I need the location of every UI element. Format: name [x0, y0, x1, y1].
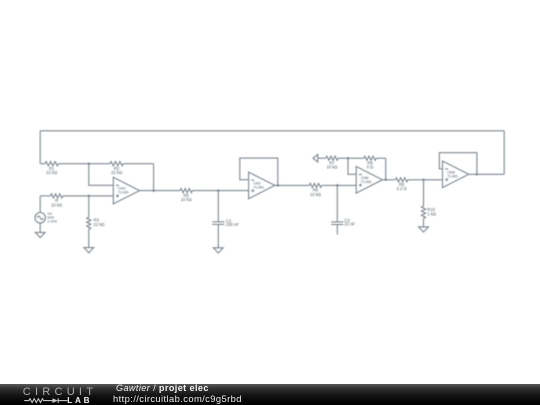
wire R1 lead left [40, 163, 45, 165]
ground V0 [35, 232, 45, 237]
wire top feedback bus [40, 130, 504, 132]
wire node to R2 [89, 163, 110, 165]
capacitor C3 [331, 221, 343, 223]
op-amp OA2 [249, 172, 275, 199]
ground C2 [213, 248, 223, 253]
wire output up to bus [503, 131, 505, 175]
resistor R8 [364, 156, 376, 160]
wire node to + input [89, 195, 114, 197]
op-amp OA8 [443, 161, 469, 188]
wire R2 to corner [123, 163, 153, 165]
wire node to OA8 + [424, 179, 443, 181]
resistor R5 [180, 189, 192, 193]
wire R5 to node [192, 190, 218, 192]
source V0 [35, 213, 46, 224]
resistor R6 [309, 183, 322, 187]
svg-text:10 kΩ: 10 kΩ [181, 197, 192, 202]
ground R3 [84, 248, 94, 253]
wire OA8 feedback box [439, 153, 477, 175]
node R9/R10 junction [422, 179, 425, 182]
wire node to R8 [348, 157, 364, 159]
svg-text:10 kΩ: 10 kΩ [326, 165, 337, 170]
logo diode [52, 398, 58, 403]
wire C3 stub [336, 225, 338, 235]
wire R10 bottom [423, 218, 425, 227]
wire OA6 inverting to feedback row [348, 158, 356, 174]
wire C3 top [336, 185, 338, 222]
svg-text:TL081: TL081 [118, 190, 129, 195]
node OA8 output junction [476, 173, 479, 176]
wire inverting input drop [89, 164, 114, 186]
svg-text:22 kΩ: 22 kΩ [51, 202, 62, 207]
node OA2 output junction [277, 184, 280, 187]
svg-text:100 nF: 100 nF [226, 222, 239, 227]
wire R3 top [88, 196, 90, 217]
wire R1 to node [58, 163, 88, 165]
wire R3 bottom [88, 229, 90, 248]
svg-text:0 Ω: 0 Ω [367, 165, 374, 170]
wire OA2 output [275, 184, 309, 186]
attribution line 1 [116, 384, 209, 393]
svg-text:10 kΩ: 10 kΩ [310, 192, 321, 197]
svg-text:22 nF: 22 nF [344, 222, 355, 227]
op-amp OA6 [356, 167, 382, 194]
svg-text:TL081: TL081 [361, 179, 372, 184]
resistor R7 [326, 156, 338, 160]
CircuitLab logo text LAB [67, 397, 92, 405]
wire V0 to ground [39, 223, 41, 232]
wire input lead [40, 195, 50, 197]
node R2/output junction [152, 189, 155, 192]
svg-text:2.2 Ω: 2.2 Ω [397, 186, 407, 191]
wire left drop to R1 [39, 131, 41, 164]
resistor R3 [87, 217, 91, 229]
capacitor C2 [212, 221, 224, 223]
footer bar [0, 384, 540, 405]
op-amp OA4 [113, 177, 139, 204]
svg-text:TL081: TL081 [253, 184, 264, 189]
wire R10 top [423, 180, 425, 206]
wire OA2 feedback box [240, 158, 278, 185]
wire R7 to node [338, 157, 348, 159]
wire OA8 output [469, 173, 505, 175]
wire C2 top [217, 191, 219, 222]
wire OA4 output [140, 190, 181, 192]
node R1/R2/feedback junction [88, 162, 91, 165]
wire node to OA2 + [218, 190, 248, 192]
resistor R9 [395, 178, 408, 182]
svg-text:22 kΩ: 22 kΩ [94, 222, 105, 227]
wire R8 to corner [376, 157, 386, 159]
svg-text:22 kΩ: 22 kΩ [111, 170, 122, 175]
wire flag to R7 [318, 157, 326, 159]
svg-text:1 kΩ: 1 kΩ [427, 211, 436, 216]
node R7/R8 junction [347, 157, 350, 160]
resistor R2 [110, 162, 123, 166]
attribution line 2 [113, 394, 242, 403]
wire source up [39, 196, 41, 213]
svg-text:1 kHz: 1 kHz [47, 219, 57, 223]
logo resistor squiggle [24, 399, 52, 403]
resistor R1 [45, 162, 58, 166]
wire R to node [63, 195, 89, 197]
CircuitLab logo text CIRCUIT [23, 387, 97, 398]
svg-text:TL081: TL081 [447, 173, 458, 178]
node R6/C3 junction [336, 184, 339, 187]
wire node to OA6 + [337, 184, 356, 186]
resistor R10 [421, 206, 425, 218]
node OA6 output junction [384, 179, 387, 182]
wire R8 corner down [385, 158, 387, 180]
CircuitLab logo schematic glyph [0, 384, 110, 405]
node R5/C2 junction [217, 189, 220, 192]
node R/R3 junction [88, 195, 91, 198]
wire R6 to node [322, 184, 338, 186]
wire R9 to node [408, 179, 424, 181]
wire OA6 output [383, 179, 396, 181]
svg-text:22 kΩ: 22 kΩ [46, 170, 57, 175]
wire C2 bottom [217, 224, 219, 247]
wire R2 corner down to output [153, 164, 155, 191]
node flag NF1 [313, 154, 318, 162]
resistor R [50, 194, 63, 198]
ground R10 [419, 227, 429, 232]
